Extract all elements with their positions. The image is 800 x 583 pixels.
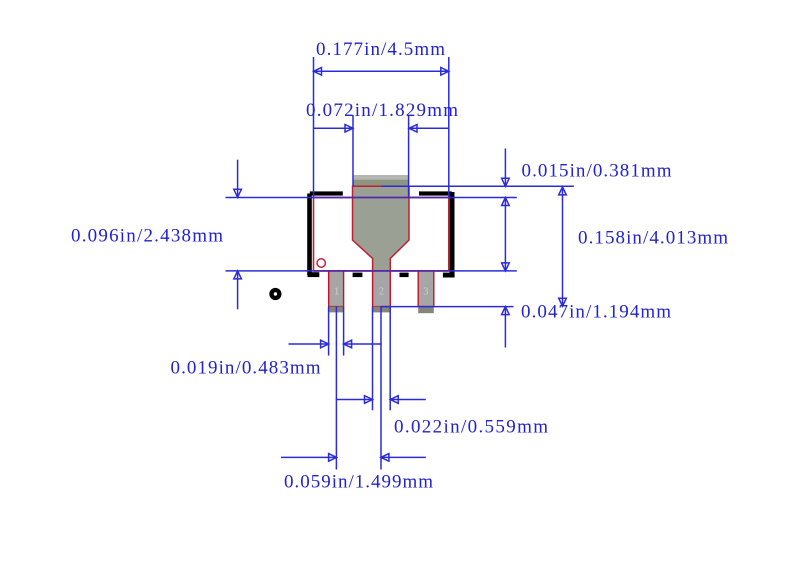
pad land left vertical black bar (307, 194, 312, 276)
extension line body left top (313, 57, 315, 198)
tab polygon (353, 186, 410, 271)
left dim column x=237 top segment (237, 160, 239, 198)
extension line body right top (448, 57, 450, 198)
svg-text:0.022in/0.559mm: 0.022in/0.559mm (394, 417, 548, 438)
dim 0.059 arrows row (281, 456, 337, 458)
package body outline (314, 198, 449, 271)
pin 1 pad tip (329, 307, 344, 313)
pad land mark between pin1 and pin2 (353, 273, 363, 278)
pad land right vertical black bar (450, 192, 455, 275)
dim 0.019 arrows row (289, 343, 329, 345)
body bottom edge overlap purple (314, 270, 449, 272)
right dim column x=505 pin length segment (504, 307, 506, 348)
extension line tab right (408, 115, 410, 198)
pad land bottom-right foot (443, 273, 455, 278)
pad land mark between pin2 and pin3 (400, 273, 409, 278)
dim 0.022 arrows row (336, 399, 373, 401)
extension line tab left (352, 115, 354, 186)
pad land bottom-left foot (308, 272, 320, 277)
pin 1 (329, 271, 344, 307)
tab light gray band (353, 175, 410, 180)
right dim column x=505 body height segment (504, 198, 506, 271)
pad land top-right black bar (419, 191, 452, 195)
body bottom edge extension line (226, 270, 314, 272)
svg-text:2: 2 (379, 286, 384, 297)
pin1 left extension (328, 307, 330, 356)
svg-text:0.047in/1.194mm: 0.047in/1.194mm (521, 302, 671, 323)
svg-text:1: 1 (334, 286, 339, 297)
pin 2 pad tip (373, 307, 391, 313)
dim line 0.158 vertical (562, 187, 564, 306)
body top edge overlap purple (314, 197, 449, 199)
dim line 0.072 tab width arrows (314, 127, 354, 129)
tab olive band (353, 180, 410, 187)
svg-text:0.059in/1.499mm: 0.059in/1.499mm (284, 472, 433, 493)
pad land top-left black bar (310, 191, 343, 195)
pin bottom extension line (381, 306, 514, 308)
dim line 0.177 overall width arrow line (314, 70, 449, 72)
body top edge extension line (226, 197, 314, 199)
pin2 right extension (389, 307, 391, 411)
svg-text:0.096in/2.438mm: 0.096in/2.438mm (71, 226, 223, 247)
right dim column x=505 segment top (504, 149, 506, 187)
pin 3 (418, 271, 434, 307)
svg-text:0.019in/0.483mm: 0.019in/0.483mm (171, 358, 321, 379)
pin 2 (373, 271, 391, 307)
pin1 center extension (335, 307, 337, 470)
svg-text:0.158in/4.013mm: 0.158in/4.013mm (578, 228, 728, 249)
left dim column x=237 bottom segment (237, 271, 239, 309)
svg-text:3: 3 (423, 286, 428, 297)
origin donut marker (269, 288, 281, 300)
svg-text:0.015in/0.381mm: 0.015in/0.381mm (522, 161, 672, 182)
pin2 center extension (380, 307, 382, 470)
pin 1 indicator circle (317, 259, 325, 267)
svg-text:0.177in/4.5mm: 0.177in/4.5mm (316, 39, 445, 60)
pin 3 pad tip (418, 307, 434, 314)
pin2 left extension (372, 307, 374, 411)
svg-text:0.072in/1.829mm: 0.072in/1.829mm (306, 100, 458, 121)
dim line 0.015 horizontal at tab top (381, 185, 574, 187)
pin1 right extension (343, 307, 345, 356)
